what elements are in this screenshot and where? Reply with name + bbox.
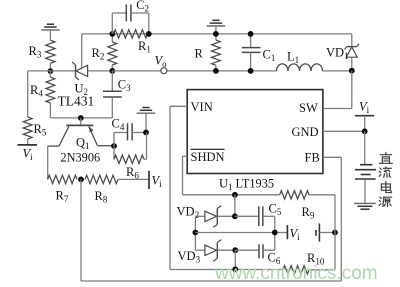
wire xyxy=(234,195,236,217)
svg-text:L1: L1 xyxy=(287,50,299,66)
wire xyxy=(195,249,205,251)
svg-text:Vi: Vi xyxy=(152,174,163,190)
wire collector down xyxy=(47,146,49,179)
op-amp U2 TL431 symbol xyxy=(75,65,77,77)
terminal Vi mid xyxy=(286,225,288,239)
node row2 xyxy=(232,213,238,219)
node GND-Vi xyxy=(362,128,368,134)
resistor R2 xyxy=(111,34,113,42)
svg-text:R: R xyxy=(195,47,204,61)
diode VD3 xyxy=(205,245,217,255)
node C1 top xyxy=(248,31,254,37)
svg-text:LT1935: LT1935 xyxy=(236,177,275,191)
node R7-R8 xyxy=(78,177,84,183)
wire xyxy=(274,216,276,250)
node R bottom xyxy=(213,68,219,74)
wire bottom row xyxy=(170,269,283,271)
resistor R10 xyxy=(283,266,309,274)
capacitor C1 xyxy=(250,34,252,48)
ground xyxy=(142,107,149,109)
ground xyxy=(47,23,54,25)
node Vo xyxy=(161,68,167,74)
svg-text:R4: R4 xyxy=(30,83,43,99)
label DC source text xyxy=(379,152,392,163)
resistor R6 xyxy=(113,146,115,159)
svg-text:R7: R7 xyxy=(56,189,69,205)
resistor R7 xyxy=(48,175,77,183)
capacitor C6 xyxy=(235,249,259,251)
wire left vertical xyxy=(194,216,196,250)
svg-text:SHDN: SHDN xyxy=(191,150,225,164)
op-amp U1 LT1935 box xyxy=(187,90,323,174)
wire top rail xyxy=(82,33,352,35)
svg-text:C4: C4 xyxy=(112,117,125,133)
node row3 xyxy=(232,247,238,253)
terminal Vi left xyxy=(18,144,38,146)
svg-text:C3: C3 xyxy=(118,78,131,94)
wire xyxy=(27,71,29,117)
node C1 bottom xyxy=(248,68,254,74)
svg-text:R8: R8 xyxy=(95,189,108,205)
wire R4-C3 xyxy=(50,117,112,119)
terminal Vi top right xyxy=(355,115,374,117)
svg-text:SW: SW xyxy=(299,101,318,115)
svg-text:www.cntronics.com: www.cntronics.com xyxy=(214,263,378,284)
wire GND xyxy=(323,130,365,132)
wire row1 xyxy=(183,194,280,196)
wire xyxy=(28,70,51,72)
node rail-left junction xyxy=(48,68,54,74)
resistor R3 xyxy=(46,40,55,63)
svg-text:C1: C1 xyxy=(263,48,276,64)
svg-text:R5: R5 xyxy=(34,122,47,138)
battery DC source xyxy=(364,131,366,164)
ground xyxy=(212,19,219,21)
svg-text:Q1: Q1 xyxy=(76,136,90,152)
wire SW xyxy=(323,108,352,110)
svg-text:R3: R3 xyxy=(29,44,42,60)
terminal Vi R8 xyxy=(148,171,150,189)
wire VIN xyxy=(170,105,187,107)
svg-text:Vi: Vi xyxy=(23,147,34,163)
svg-text:VIN: VIN xyxy=(191,100,213,114)
node bottom xyxy=(232,266,238,272)
resistor R xyxy=(215,34,217,40)
diode VD2 xyxy=(205,211,217,221)
wire bottom rail xyxy=(81,280,341,282)
resistor R5 xyxy=(23,117,32,139)
svg-text:FB: FB xyxy=(305,151,320,165)
node row1 xyxy=(232,192,238,198)
diode VD1 xyxy=(351,34,353,47)
svg-text:Vi: Vi xyxy=(290,227,301,243)
resistor R9 xyxy=(280,191,309,199)
svg-text:2N3906: 2N3906 xyxy=(61,151,101,165)
resistor R1 xyxy=(114,30,148,38)
transistor Q1 2N3906 xyxy=(80,118,82,125)
resistor R4 xyxy=(49,71,51,77)
inductor L1 xyxy=(277,64,289,71)
capacitor C4 xyxy=(113,133,115,147)
wire xyxy=(50,70,75,72)
wire xyxy=(88,70,113,72)
wire bottom left xyxy=(80,179,82,281)
node C4 right xyxy=(143,130,149,136)
node Vo-C3 xyxy=(109,68,115,74)
svg-text:C5: C5 xyxy=(269,202,282,218)
node R1 right xyxy=(146,31,152,37)
svg-text:U1: U1 xyxy=(219,177,233,193)
svg-text:C2: C2 xyxy=(136,0,149,14)
svg-text:Vi: Vi xyxy=(359,100,370,116)
node SW-L1-VD1 xyxy=(349,68,355,74)
node R top xyxy=(213,31,219,37)
wire mid row xyxy=(195,232,287,234)
wire SHDN xyxy=(183,155,188,157)
ground battery xyxy=(354,202,376,204)
svg-text:Vo: Vo xyxy=(155,54,168,70)
svg-text:VD3: VD3 xyxy=(178,249,201,265)
node emitter xyxy=(111,143,117,149)
capacitor C5 xyxy=(235,215,259,217)
node mid right xyxy=(332,230,338,236)
capacitor C2 xyxy=(111,13,113,34)
wire FB xyxy=(323,156,341,158)
node R1-R2 xyxy=(109,31,115,37)
svg-text:R6: R6 xyxy=(126,165,139,181)
wire xyxy=(323,70,352,72)
svg-text:TL431: TL431 xyxy=(58,94,95,109)
svg-text:GND: GND xyxy=(292,125,319,139)
svg-text:R1: R1 xyxy=(138,39,151,55)
wire xyxy=(334,195,336,270)
svg-text:R2: R2 xyxy=(92,46,105,62)
wire xyxy=(195,215,205,217)
resistor R8 xyxy=(85,175,118,183)
wire Vo rail xyxy=(112,70,276,72)
wire xyxy=(234,250,236,269)
node Q1 base xyxy=(78,115,84,121)
node mid left xyxy=(193,230,199,236)
capacitor C3 xyxy=(111,71,113,91)
node mid C56 xyxy=(272,230,278,236)
svg-text:R9: R9 xyxy=(302,205,315,221)
battery Vi mid xyxy=(315,230,317,236)
